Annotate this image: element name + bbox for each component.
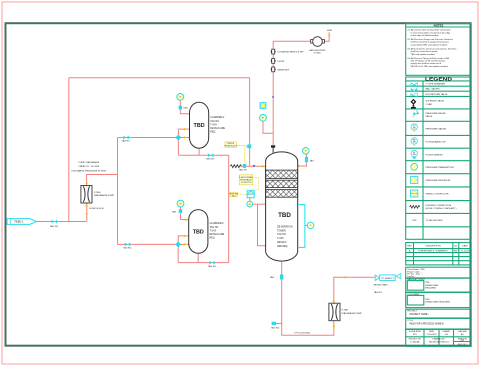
svg-text:CUSTOMER: CUSTOMER bbox=[407, 294, 419, 296]
svg-text:CAPACITY : 40 GPM: CAPACITY : 40 GPM bbox=[79, 165, 100, 168]
svg-text:REV: REV bbox=[407, 246, 412, 248]
svg-text:P-TAG: P-TAG bbox=[94, 191, 101, 194]
svg-text:supply line shall be made out: supply line shall be made out of bbox=[411, 62, 442, 65]
svg-text:01. All control cable wiring w: 01. All control cable wiring will be ter… bbox=[408, 29, 452, 32]
svg-text:LS: LS bbox=[179, 97, 181, 99]
svg-text:TAG NO.: TAG NO. bbox=[277, 233, 287, 236]
svg-text:FOR REVIEW & COMMENTS: FOR REVIEW & COMMENTS bbox=[418, 251, 448, 253]
svg-text:TAG: TAG bbox=[183, 106, 188, 109]
svg-text:FLOW ALARM LOW: FLOW ALARM LOW bbox=[426, 141, 447, 144]
svg-text:CLARIFIER-2: CLARIFIER-2 bbox=[210, 116, 225, 119]
svg-text:DATE: DATE bbox=[462, 245, 468, 248]
svg-text:PRESSURE GAUGE: PRESSURE GAUGE bbox=[426, 127, 447, 130]
svg-text:TAG NO.: TAG NO. bbox=[206, 158, 215, 161]
svg-text:REQ.: REQ. bbox=[210, 132, 216, 134]
svg-text:DISCHARGE PRESSURE 80 PSIG: DISCHARGE PRESSURE 80 PSIG bbox=[72, 170, 107, 173]
svg-text:TAG NO.: TAG NO. bbox=[50, 225, 59, 228]
svg-text:SPEED CONTROLLER: SPEED CONTROLLER bbox=[426, 194, 449, 196]
svg-text:DIAPHRAGM PUMP: DIAPHRAGM PUMP bbox=[342, 312, 363, 315]
svg-text:17-10-2016: 17-10-2016 bbox=[427, 334, 437, 336]
svg-text:TBD: TBD bbox=[425, 282, 430, 284]
svg-text:FROM VALVE: FROM VALVE bbox=[240, 178, 252, 181]
svg-text:BALL VALVES: BALL VALVES bbox=[426, 88, 441, 91]
svg-text:DETAILS ARE REQUIRED: DETAILS ARE REQUIRED bbox=[425, 301, 450, 304]
svg-text:TOWER: TOWER bbox=[277, 230, 286, 232]
svg-text:SA 106 Gr. B TBD and update ne: SA 106 Gr. B TBD and update needed. bbox=[411, 65, 449, 68]
svg-text:FE: FE bbox=[249, 204, 251, 206]
svg-text:MIXING TANK: MIXING TANK bbox=[374, 284, 389, 287]
svg-text:02. All Pressure Gauge and Pre: 02. All Pressure Gauge and Pressure Swit… bbox=[408, 38, 454, 41]
svg-text:FLEXIBLE CONNECTION: FLEXIBLE CONNECTION bbox=[426, 205, 452, 207]
svg-text:4-XXXX SIGNAL: 4-XXXX SIGNAL bbox=[239, 176, 252, 179]
svg-text:FILTER: FILTER bbox=[278, 61, 285, 63]
svg-text:in instrument (office mounted: in instrument (office mounted at the edg… bbox=[411, 31, 452, 34]
svg-text:04. All Process Piping shall b: 04. All Process Piping shall be made of … bbox=[408, 57, 450, 60]
svg-text:FE: FE bbox=[413, 152, 415, 154]
svg-text:PRESSURE RELIEF: PRESSURE RELIEF bbox=[426, 113, 447, 115]
svg-text:TAG NO.: TAG NO. bbox=[374, 291, 383, 294]
svg-text:SCALE AT A0: SCALE AT A0 bbox=[409, 330, 421, 333]
svg-text:MANUFACTURER: MANUFACTURER bbox=[407, 278, 425, 281]
svg-text:312 TP 304 (L of Off and Pneum: 312 TP 304 (L of Off and Pneumatic bbox=[411, 60, 447, 63]
svg-text:TAG: TAG bbox=[172, 210, 177, 213]
svg-text:PT: PT bbox=[262, 118, 264, 120]
svg-text:Y TYPE STRAINER: Y TYPE STRAINER bbox=[426, 83, 446, 86]
svg-text:TO SHEET 2: TO SHEET 2 bbox=[381, 278, 394, 280]
svg-text:PRESSURE TRANSMITTER: PRESSURE TRANSMITTER bbox=[426, 166, 455, 169]
svg-text:TBD: TBD bbox=[412, 220, 417, 222]
svg-text:CLARIFIER-2: CLARIFIER-2 bbox=[210, 222, 225, 225]
svg-text:PROJECT NAME -: PROJECT NAME - bbox=[410, 313, 430, 316]
svg-text:TBD: TBD bbox=[460, 340, 464, 342]
svg-text:FEED 1: FEED 1 bbox=[14, 220, 24, 224]
svg-text:DETAILS ARE: DETAILS ARE bbox=[425, 284, 439, 287]
svg-text:P-TAG: P-TAG bbox=[314, 52, 321, 55]
svg-text:NOTES: NOTES bbox=[434, 24, 444, 28]
svg-text:TITLE: TITLE bbox=[407, 320, 413, 322]
svg-text:TBD: TBD bbox=[194, 123, 205, 129]
svg-text:DRAWN: DRAWN bbox=[443, 330, 451, 333]
svg-text:TBD: TBD bbox=[278, 212, 291, 219]
svg-text:T-XXX: T-XXX bbox=[210, 230, 217, 232]
svg-text:VALVE: VALVE bbox=[426, 115, 433, 118]
svg-text:DE-AERATION: DE-AERATION bbox=[277, 225, 293, 228]
svg-text:CHECKED: CHECKED bbox=[458, 331, 468, 333]
svg-text:DETAILS ARE: DETAILS ARE bbox=[210, 233, 225, 236]
svg-text:DETAILS ARE: DETAILS ARE bbox=[210, 127, 225, 130]
svg-text:P-TAG: P-TAG bbox=[342, 308, 349, 311]
svg-text:TAG NO.: TAG NO. bbox=[210, 120, 220, 123]
svg-text:PRESSURE INDICATOR: PRESSURE INDICATOR bbox=[426, 179, 451, 182]
svg-text:XV-1: XV-1 bbox=[232, 195, 236, 197]
svg-text:TAG: TAG bbox=[270, 276, 275, 279]
svg-text:VACUUM PUMP: VACUUM PUMP bbox=[309, 49, 326, 52]
svg-text:TBD: TBD bbox=[425, 299, 430, 301]
svg-text:SOLENOID VALVE: SOLENOID VALVE bbox=[426, 100, 445, 103]
svg-text:REQ.: REQ. bbox=[210, 238, 216, 240]
svg-text:ARE REQ.: ARE REQ. bbox=[277, 245, 288, 248]
svg-text:ATM: ATM bbox=[327, 29, 332, 32]
svg-text:REQUIRED: REQUIRED bbox=[425, 288, 436, 290]
svg-text:NON RETURN VALVE: NON RETURN VALVE bbox=[426, 93, 448, 96]
svg-text:TAG NO.: TAG NO. bbox=[122, 140, 131, 143]
svg-text:TAG: TAG bbox=[310, 160, 315, 163]
svg-text:TAG NO.: TAG NO. bbox=[271, 327, 280, 330]
svg-text:03. All instruments,electrical: 03. All instruments,electrical instrumen… bbox=[408, 47, 458, 50]
svg-text:TBD: TBD bbox=[193, 229, 204, 235]
svg-text:2 WAY: 2 WAY bbox=[426, 103, 433, 106]
svg-text:LEGEND: LEGEND bbox=[425, 76, 452, 81]
svg-text:TBD-VB-TBD-P&ID-001: TBD-VB-TBD-P&ID-001 bbox=[429, 342, 449, 344]
svg-text:TAG NO.: TAG NO. bbox=[208, 265, 217, 268]
svg-text:TBD and update needed.: TBD and update needed. bbox=[411, 53, 436, 56]
svg-text:PROJECT: PROJECT bbox=[407, 311, 417, 313]
svg-text:shall be mounted in guage boar: shall be mounted in guage board panel bbox=[411, 41, 449, 44]
svg-text:TAG NO.: TAG NO. bbox=[239, 168, 248, 171]
svg-text:T-XXX: T-XXX bbox=[210, 124, 217, 126]
svg-text:17-10-16: 17-10-16 bbox=[461, 251, 471, 253]
svg-text:HOSE SCH 40: HOSE SCH 40 bbox=[89, 208, 104, 210]
svg-text:WATER SEP: WATER SEP bbox=[278, 68, 290, 71]
svg-text:PROJECT NO: PROJECT NO bbox=[409, 339, 422, 341]
svg-text:TO SV-XYTH: TO SV-XYTH bbox=[241, 182, 252, 184]
svg-text:DIAPHRAGM PUMP: DIAPHRAGM PUMP bbox=[94, 194, 115, 197]
svg-text:FLOW ELEMENT: FLOW ELEMENT bbox=[426, 154, 444, 156]
svg-text:SH 1 OF 1: SH 1 OF 1 bbox=[458, 344, 467, 346]
svg-text:ULTRA FINE PARTICLE SEP: ULTRA FINE PARTICLE SEP bbox=[278, 51, 305, 54]
svg-text:TAG NO.: TAG NO. bbox=[123, 247, 132, 250]
svg-text:TO BE DECIDED: TO BE DECIDED bbox=[426, 220, 443, 222]
svg-text:shall be connected to panel.: shall be connected to panel. bbox=[411, 50, 439, 53]
svg-text:using tubing TBD and update ne: using tubing TBD and update needed. bbox=[411, 43, 448, 46]
svg-text:DRAWING NO: DRAWING NO bbox=[432, 338, 445, 341]
svg-text:P&ID FOR A PROCESS NAME B: P&ID FOR A PROCESS NAME B bbox=[410, 322, 445, 325]
svg-text:LS: LS bbox=[180, 203, 182, 205]
svg-text:MD: MD bbox=[454, 251, 458, 253]
svg-text:T-XXX: T-XXX bbox=[277, 238, 284, 240]
svg-text:at the edge of Skid boundary: at the edge of Skid boundary bbox=[411, 34, 440, 37]
svg-text:DESCRIPTION: DESCRIPTION bbox=[426, 246, 441, 248]
svg-text:DATE: DATE bbox=[429, 330, 435, 333]
svg-text:3' PVC (SCH40): 3' PVC (SCH40) bbox=[294, 332, 310, 334]
svg-text:FROM SV-XYZ: FROM SV-XYZ bbox=[225, 146, 238, 148]
svg-text:TAG NO.: TAG NO. bbox=[210, 226, 220, 229]
svg-text:(HOSE / TUBING / CAPILARY ): (HOSE / TUBING / CAPILARY ) bbox=[426, 207, 457, 210]
svg-text:Tag No. :: Tag No. : bbox=[407, 276, 416, 278]
svg-text:(T-TBD-AB: (T-TBD-AB bbox=[410, 341, 420, 344]
svg-text:PUMP, DIAPHRAGM: PUMP, DIAPHRAGM bbox=[79, 161, 100, 164]
svg-text:DETAILS: DETAILS bbox=[277, 241, 287, 244]
